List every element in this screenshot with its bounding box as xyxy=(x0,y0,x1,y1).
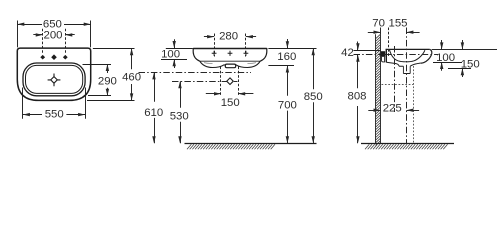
basin top rim line xyxy=(386,48,430,50)
dimension 70 and 155 xyxy=(368,17,420,34)
dimension 460 xyxy=(87,48,141,100)
svg-text:700: 700 xyxy=(278,99,297,111)
bowl outer rim xyxy=(23,63,85,96)
basin underside line xyxy=(200,60,260,62)
svg-text:150: 150 xyxy=(221,97,240,109)
basin front lip xyxy=(421,49,432,63)
dimension 290 xyxy=(83,64,117,96)
dimension 160 xyxy=(268,39,316,66)
fixing bracket lower tab xyxy=(382,57,385,62)
tap hole cross left xyxy=(212,51,217,56)
svg-text:70: 70 xyxy=(372,17,385,29)
floor line (middle view) xyxy=(185,143,317,145)
floor hatching (middle view) xyxy=(187,144,275,149)
tap hole diamond center xyxy=(51,54,57,60)
drain diamond marker xyxy=(227,78,234,85)
svg-text:460: 460 xyxy=(122,72,141,84)
waste pipe stub xyxy=(403,66,410,73)
dimension 150 (drain spacing) xyxy=(206,67,254,109)
svg-text:100: 100 xyxy=(436,52,455,64)
wall hatching xyxy=(376,34,381,145)
wall boundary right (face) xyxy=(380,34,382,143)
bowl inner rim xyxy=(26,65,83,93)
wall boundary left xyxy=(375,34,377,143)
dimension 530 xyxy=(170,81,189,143)
drain boss xyxy=(225,64,235,68)
svg-text:850: 850 xyxy=(304,91,323,103)
tap axis (dash-dot vertical) xyxy=(394,46,396,112)
tap hole cross right xyxy=(244,51,249,56)
dimension 150 (right view) xyxy=(448,40,480,77)
tap hole cross center xyxy=(228,51,233,56)
dimension 700 xyxy=(278,66,297,144)
basin front right edge xyxy=(260,48,267,61)
svg-text:550: 550 xyxy=(45,109,64,121)
centerline drain level xyxy=(172,81,238,83)
tap hole diamond right xyxy=(63,55,68,60)
dimension 100 (front height) xyxy=(161,39,193,68)
svg-text:808: 808 xyxy=(347,91,366,103)
dimension 42 xyxy=(341,42,384,62)
svg-text:42: 42 xyxy=(341,47,354,59)
apron gray accent right xyxy=(248,62,257,65)
right-side top extension xyxy=(432,49,497,51)
dimension 225 xyxy=(368,103,419,115)
svg-text:155: 155 xyxy=(388,17,407,29)
svg-text:280: 280 xyxy=(219,31,238,43)
drain axis (dash-dot vertical) xyxy=(406,28,408,144)
dimension 100 (right view) xyxy=(433,40,462,71)
dimension 650 xyxy=(17,19,90,48)
dimension 610 xyxy=(144,72,163,143)
drain diamond xyxy=(51,77,58,84)
floor line (right view) xyxy=(361,143,454,145)
svg-text:225: 225 xyxy=(383,103,402,115)
drain cross xyxy=(48,74,61,87)
basin front top edge xyxy=(193,48,267,50)
dimension 808 xyxy=(347,55,366,144)
svg-text:150: 150 xyxy=(461,58,480,70)
fixing bracket xyxy=(381,51,385,57)
fixing axis (dashed vertical) xyxy=(388,28,390,58)
apron gray accent left xyxy=(204,62,213,65)
basin underside xyxy=(386,62,421,66)
dimension 280 xyxy=(204,31,256,57)
dimension 550 xyxy=(23,88,86,121)
dimension 200 xyxy=(33,29,74,53)
basin plan outline xyxy=(17,48,90,100)
basin apron silhouette xyxy=(200,61,260,67)
floor hatching (right view) xyxy=(365,144,448,149)
svg-text:530: 530 xyxy=(170,110,189,122)
svg-text:290: 290 xyxy=(98,75,117,87)
hidden waste line (dotted) xyxy=(382,84,414,86)
svg-text:200: 200 xyxy=(43,30,62,42)
basin front left edge xyxy=(193,48,200,61)
tap hole diamond left xyxy=(40,55,45,60)
svg-text:160: 160 xyxy=(277,51,296,63)
bowl section curve xyxy=(390,50,425,62)
basin back edge xyxy=(385,49,387,63)
dimension 850 xyxy=(304,48,323,143)
hidden waste pipe drop (dotted) xyxy=(413,66,415,143)
centerline tap level xyxy=(139,72,252,74)
tap level line through basin (dash-dot) xyxy=(385,54,439,56)
svg-text:610: 610 xyxy=(144,107,163,119)
svg-text:100: 100 xyxy=(161,48,180,60)
